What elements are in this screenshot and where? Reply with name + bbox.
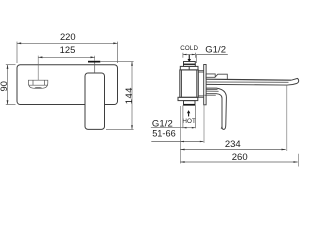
cold flow arrow [188,55,192,62]
svg-text:220: 220 [60,31,76,42]
svg-text:144: 144 [124,87,135,104]
handle side view [204,88,226,129]
spout side view [206,78,298,85]
svg-text:HOT: HOT [182,118,196,125]
cold port width dimension [183,53,196,58]
dimension 260 [180,161,297,163]
dimension 125 [38,56,94,58]
slot center line [37,56,39,80]
svg-text:COLD: COLD [180,45,198,52]
dimension 90 [6,65,16,105]
hot flow arrow [187,110,190,116]
dimension 234 [180,149,285,151]
top port thick seat [184,64,196,65]
bottom flange [178,97,198,100]
svg-text:234: 234 [225,139,241,150]
supply pipes across wall gap [198,71,203,98]
top inlet port [184,62,196,67]
dimension 51-66 [151,141,203,143]
dimension 144 [101,62,134,130]
wall face extension line [203,105,205,143]
handle front view [85,56,105,130]
top flange [180,66,198,70]
svg-text:260: 260 [232,152,248,163]
234 extension at spout outlet [286,85,288,151]
wall plate side view [204,65,206,105]
hot port width dimension [183,105,196,128]
wall plate front view [17,65,118,105]
body back extension line [179,106,181,164]
svg-text:90: 90 [0,81,9,91]
valve body side view [178,62,198,106]
svg-text:125: 125 [60,44,76,55]
spout mount blocks [206,74,227,79]
dimension 220 [17,42,118,63]
svg-text:G1/2: G1/2 [205,45,226,56]
bottom outlet port [184,101,196,106]
bottom port thick seat [184,104,196,105]
260 extension at spout tip [297,154,299,167]
body shell [180,70,199,97]
spout outlet slot [28,80,47,88]
svg-text:51-66: 51-66 [152,129,176,139]
